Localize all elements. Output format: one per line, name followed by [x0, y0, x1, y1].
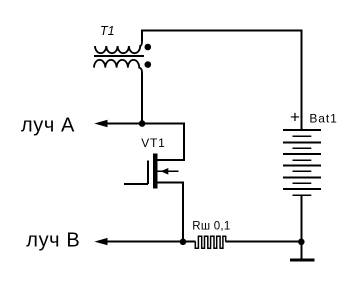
junction луч В / source [180, 239, 187, 246]
svg-text:луч В: луч В [26, 230, 80, 252]
arrow луч В [94, 238, 107, 245]
svg-text:+: + [290, 108, 300, 127]
svg-text:луч А: луч А [21, 115, 75, 137]
transformer T1 primary winding (top) [95, 42, 142, 54]
wire луч А to drain of VT1 [105, 124, 185, 161]
svg-text:Rш 0,1: Rш 0,1 [192, 221, 230, 233]
svg-text:VT1: VT1 [141, 136, 165, 150]
svg-text:Bat1: Bat1 [309, 112, 337, 126]
wire source of VT1 down to луч В line [158, 183, 184, 242]
transistor VT1 channel bar [153, 153, 158, 188]
junction луч А / transformer [139, 120, 146, 127]
wire луч В to resistor [104, 241, 196, 243]
resistor Rш 0,1 (shunt meander) [195, 236, 225, 248]
wire resistor to battery minus [226, 241, 302, 243]
transformer T1 secondary winding (bottom) [94, 60, 142, 73]
wire transformer bottom down to луч А junction [141, 73, 143, 124]
wire transformer top to battery plus [142, 31, 302, 131]
wire battery minus down to луч В line and ground [301, 195, 303, 259]
transformer T1 core [94, 55, 144, 57]
polarity dot bottom winding [145, 61, 152, 68]
arrow луч А [94, 120, 107, 127]
ground [290, 258, 315, 261]
battery Bat1 cells [283, 130, 321, 195]
transistor VT1 gate [124, 161, 148, 185]
svg-text:T1: T1 [100, 24, 115, 38]
transistor VT1 substrate arrow [158, 170, 179, 172]
polarity dot top winding [145, 44, 152, 51]
junction battery / луч В [298, 239, 305, 246]
